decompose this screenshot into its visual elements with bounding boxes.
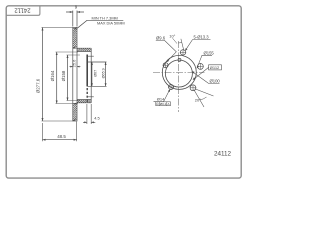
dim Ø67	[91, 62, 93, 86]
inner circle	[165, 60, 192, 87]
svg-text:48.5: 48.5	[57, 134, 66, 139]
svg-text:Ø164: Ø164	[50, 70, 55, 81]
svg-text:20°: 20°	[195, 98, 201, 103]
hole O14 lower-left	[168, 84, 174, 90]
bolt hole bottom-right	[190, 85, 196, 91]
label 20deg	[194, 89, 214, 107]
svg-text:Ø67: Ø67	[93, 70, 97, 77]
dim 9 extension lines	[73, 11, 77, 27]
svg-text:Ø112: Ø112	[210, 65, 220, 70]
pin hole small top	[178, 58, 181, 61]
dim 4.5 bottom right	[83, 104, 95, 124]
svg-text:4.5: 4.5	[94, 115, 100, 120]
dim Ø277.6	[42, 28, 73, 122]
dim Ø164	[56, 52, 58, 104]
svg-text:24112: 24112	[214, 150, 232, 157]
border frame	[6, 6, 241, 178]
bore extents	[87, 56, 106, 97]
centerline horizontal	[153, 72, 205, 74]
svg-text:24112: 24112	[14, 6, 31, 12]
hat top wall	[77, 48, 91, 51]
svg-text:MAX DIA 50MM: MAX DIA 50MM	[97, 21, 125, 26]
svg-text:Ø277.6: Ø277.6	[36, 78, 41, 93]
hatch bottom band	[73, 103, 77, 121]
svg-text:10°: 10°	[169, 33, 175, 38]
svg-text:Ø0.2: Ø0.2	[160, 102, 167, 106]
centerline vertical	[153, 41, 205, 112]
svg-text:25.6: 25.6	[71, 59, 76, 68]
svg-text:Ø158: Ø158	[61, 70, 66, 81]
svg-text:Ø155: Ø155	[204, 50, 215, 55]
label O112 boxed	[209, 65, 222, 70]
svg-text:Ø100: Ø100	[210, 79, 221, 84]
title box top-left	[6, 6, 40, 16]
hatch hat walls	[77, 49, 91, 103]
bolt hole right	[197, 63, 203, 69]
hole O9.6 upper-left	[163, 62, 169, 68]
svg-text:⊙: ⊙	[156, 102, 159, 106]
dim 9 line with arrows	[66, 11, 84, 13]
svg-text:Ø65.9: Ø65.9	[101, 68, 105, 78]
svg-text:5-Ø13.3: 5-Ø13.3	[194, 35, 210, 40]
outer circle (hub face)	[162, 55, 196, 89]
dim Ø65.9	[105, 62, 107, 86]
hatch top band	[73, 28, 77, 49]
disc band outline	[73, 28, 77, 122]
bolt hole top	[180, 49, 186, 55]
hat bottom wall	[77, 100, 91, 103]
hat face	[90, 48, 92, 103]
dim 48.5 bottom	[43, 122, 77, 142]
leader MIN TH	[77, 20, 123, 28]
bore face dark	[86, 55, 88, 87]
dim Ø158	[56, 52, 81, 104]
svg-text:Ø9.6: Ø9.6	[156, 36, 166, 41]
